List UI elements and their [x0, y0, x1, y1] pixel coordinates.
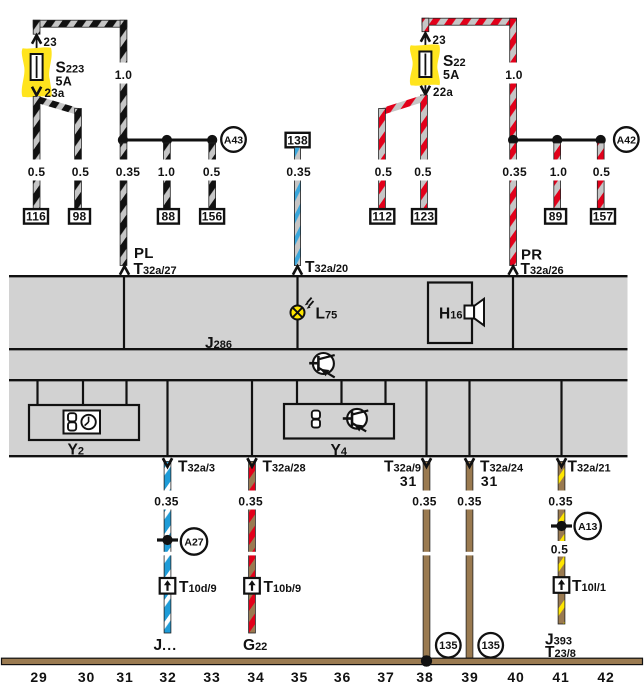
solder joint A13: [551, 524, 572, 527]
svg-text:38: 38: [416, 669, 433, 685]
svg-text:1.0: 1.0: [115, 68, 133, 82]
svg-text:0.5: 0.5: [28, 165, 46, 179]
junction dot: [118, 135, 128, 145]
arrow terminal 22a of S22: [421, 86, 430, 95]
wire stub down to fuse S22: [422, 18, 429, 32]
horn H16 box: [428, 283, 472, 344]
svg-text:156: 156: [202, 210, 223, 224]
svg-text:31: 31: [116, 669, 133, 685]
section break gap: [247, 552, 256, 556]
arrow into J286 pin T32a/20: [293, 266, 302, 275]
lamp L75: [291, 306, 305, 320]
arrow terminal 23 of S223: [32, 35, 41, 44]
pump Y2 box: [29, 405, 139, 440]
node A42: [614, 127, 639, 152]
svg-text:98: 98: [73, 210, 87, 224]
section break gap: [163, 552, 172, 556]
wire br/ge from T32a/21: [558, 462, 565, 625]
svg-text:135: 135: [482, 640, 500, 652]
arrow out pin T32a/9: [422, 458, 431, 467]
terminal 112: [370, 209, 394, 224]
svg-text:A42: A42: [617, 134, 636, 146]
svg-text:23: 23: [44, 37, 57, 49]
Y4 connection stubs: [296, 381, 298, 404]
knockout + label 1.0: [109, 63, 139, 84]
svg-text:35: 35: [291, 669, 308, 685]
wire 1.0 to terminal 88: [164, 143, 171, 209]
ground point 135: [436, 633, 461, 658]
lead to T32a/21: [560, 381, 562, 455]
node A43: [221, 127, 246, 152]
svg-text:A27: A27: [184, 536, 203, 548]
wire through fuse S22: [424, 34, 426, 94]
connector T10l/1: [554, 577, 570, 593]
wire stub from bus bar down to fuse S223: [33, 20, 40, 34]
wire exit arrows overdraw: [163, 458, 172, 467]
terminal 88: [158, 209, 179, 224]
fuse S22 symbol: [419, 52, 431, 78]
wire top-left horizontal (sw/gr): [33, 20, 127, 27]
junction dot: [596, 135, 606, 145]
svg-text:33: 33: [203, 669, 220, 685]
wire 0.35 br from T32a/24 to ground: [466, 462, 473, 659]
arrow into J286 pin T32a/26: [509, 266, 518, 275]
arrow out pin T32a/28: [247, 458, 256, 467]
wire top-right horizontal (ro/gr): [422, 18, 517, 25]
control module J286 body: [9, 276, 628, 456]
lead to T32a/9: [425, 381, 427, 455]
svg-text:42: 42: [597, 669, 614, 685]
wire 0.35 ro/br from T32a/28: [249, 462, 256, 634]
svg-text:157: 157: [593, 210, 614, 224]
junction dot: [207, 135, 217, 145]
terminal 156: [200, 209, 224, 224]
J286 box top border: [9, 275, 628, 277]
svg-text:0.5: 0.5: [551, 543, 569, 557]
svg-text:0.35: 0.35: [412, 495, 437, 509]
terminal 116: [24, 209, 48, 224]
arrow terminal 23 of S22: [421, 33, 430, 42]
svg-text:39: 39: [461, 669, 478, 685]
svg-text:0.35: 0.35: [116, 165, 141, 179]
svg-text:0.35: 0.35: [457, 495, 482, 509]
wire lamp feed inside J286: [296, 277, 298, 348]
svg-text:32: 32: [159, 669, 176, 685]
node A27: [181, 528, 207, 554]
fuse S22 patch: [410, 44, 440, 85]
wire 0.35 PR down to module: [510, 143, 517, 266]
svg-text:0.5: 0.5: [593, 165, 611, 179]
arrow out pin T32a/21: [557, 458, 566, 467]
output stage transistor symbol in J286: [313, 353, 334, 374]
svg-text:1.0: 1.0: [550, 165, 568, 179]
connector T10d/9: [160, 578, 176, 594]
arrow out pin T32a/3: [163, 458, 172, 467]
svg-text:0.35: 0.35: [548, 495, 573, 509]
terminal 157: [591, 209, 615, 224]
wire 0.35 br from T32a/9 to ground: [423, 462, 430, 659]
svg-text:88: 88: [162, 210, 176, 224]
svg-text:31: 31: [400, 473, 417, 489]
node A13: [575, 513, 601, 539]
wire branch diagonal to 98: [37, 99, 78, 111]
svg-text:A13: A13: [578, 521, 597, 533]
speaker icon of H16: [465, 306, 475, 319]
arrow into J286 pin T32a/27: [120, 266, 129, 275]
wire branch diagonal to 112: [382, 98, 424, 111]
svg-text:29: 29: [30, 669, 47, 685]
svg-text:138: 138: [287, 133, 308, 147]
svg-text:36: 36: [334, 669, 351, 685]
wire 0.5 to terminal 112: [379, 109, 386, 209]
svg-text:41: 41: [552, 669, 569, 685]
junction bus bar right: [513, 139, 601, 142]
svg-text:J...: J...: [154, 637, 178, 654]
wire 0.35 bl/ws from T32a/3: [164, 462, 171, 634]
svg-text:0.35: 0.35: [154, 495, 179, 509]
svg-text:37: 37: [377, 669, 394, 685]
svg-text:123: 123: [414, 210, 435, 224]
svg-text:0.35: 0.35: [502, 165, 527, 179]
arrow out pin T32a/24: [465, 458, 474, 467]
wire 0.5 to terminal 156: [209, 143, 216, 209]
wire 0.35 PL down to module: [120, 143, 127, 266]
svg-text:5A: 5A: [443, 68, 460, 82]
lead to T32a/3: [166, 381, 168, 455]
svg-text:A43: A43: [224, 134, 243, 146]
terminal 98: [69, 209, 90, 224]
wire 0.5 to terminal 98: [75, 109, 82, 209]
junction dot: [552, 135, 562, 145]
svg-text:1.0: 1.0: [158, 165, 176, 179]
Y4 valve icon: [312, 411, 320, 419]
wire 0.5 to terminal 123: [421, 95, 428, 209]
svg-text:0.35: 0.35: [286, 165, 311, 179]
Y4 transistor icon: [347, 409, 367, 429]
fuse S223 patch: [22, 47, 52, 97]
svg-text:23a: 23a: [45, 88, 65, 100]
pump Y4 box: [284, 404, 394, 439]
svg-text:0.5: 0.5: [375, 165, 393, 179]
svg-text:112: 112: [372, 210, 392, 224]
svg-text:40: 40: [507, 669, 524, 685]
wire PL inside J286: [123, 277, 125, 348]
svg-text:31: 31: [481, 473, 498, 489]
svg-text:PL: PL: [134, 245, 154, 262]
connector T10b/9: [244, 578, 260, 594]
ground rail (31): [2, 658, 643, 664]
svg-text:116: 116: [26, 210, 46, 224]
svg-text:0.5: 0.5: [72, 165, 90, 179]
svg-text:5A: 5A: [56, 75, 73, 89]
divider line under band 2: [9, 379, 628, 381]
lead to T32a/28: [251, 381, 253, 455]
Y2 connection stubs: [36, 381, 38, 405]
wire 0.5 to terminal 116: [33, 97, 40, 209]
terminal 89: [545, 209, 566, 224]
module bottom border: [9, 455, 628, 457]
Y2 inner icon: [64, 411, 101, 434]
svg-text:30: 30: [78, 669, 95, 685]
svg-text:89: 89: [549, 210, 563, 224]
ground junction dot: [421, 655, 432, 666]
wire PR inside J286: [512, 277, 514, 348]
svg-text:22a: 22a: [433, 87, 453, 99]
svg-text:0.35: 0.35: [238, 495, 263, 509]
svg-text:0.5: 0.5: [414, 165, 432, 179]
J286 box bottom border: [9, 348, 628, 350]
wire 1.0 right leg to junction: [510, 18, 517, 139]
lead to T32a/24: [468, 381, 470, 455]
svg-text:135: 135: [439, 640, 457, 652]
solder joint A27: [157, 538, 178, 541]
wire 0.5 to terminal 157: [597, 143, 604, 209]
wire 0.35 (gr/bl) from 138: [294, 147, 300, 265]
arrow terminal 23a of S223: [32, 87, 41, 96]
svg-text:1.0: 1.0: [505, 68, 523, 82]
terminal 123: [412, 209, 436, 224]
wire through fuse S223: [36, 36, 38, 95]
svg-text:34: 34: [247, 669, 264, 685]
wire 1.0 down right leg to junction: [120, 20, 127, 139]
fuse S223 symbol: [31, 54, 43, 80]
ground point 135: [478, 633, 503, 658]
terminal 138: [286, 133, 310, 148]
wire 1.0 to terminal 89: [554, 143, 561, 209]
junction dot: [162, 135, 172, 145]
junction bus bar left: [122, 139, 212, 142]
svg-text:0.5: 0.5: [203, 165, 221, 179]
junction dot: [508, 135, 518, 145]
